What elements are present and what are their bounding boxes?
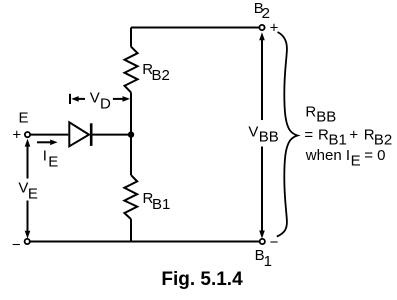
svg-text:B1: B1: [152, 196, 170, 213]
svg-text:E: E: [28, 186, 38, 203]
svg-text:1: 1: [264, 253, 272, 270]
svg-text:when I: when I: [305, 147, 350, 164]
svg-text:V: V: [248, 124, 258, 141]
svg-text:Fig. 5.1.4: Fig. 5.1.4: [161, 269, 243, 290]
svg-text:= 0: = 0: [364, 147, 385, 164]
svg-text:B2: B2: [152, 67, 170, 84]
svg-text:+: +: [349, 126, 358, 143]
svg-text:R: R: [305, 103, 316, 120]
svg-text:E: E: [351, 152, 361, 169]
svg-text:−: −: [12, 236, 21, 253]
svg-text:BB: BB: [259, 129, 279, 146]
svg-text:=: =: [304, 126, 313, 143]
svg-text:BB: BB: [316, 108, 336, 125]
svg-text:E: E: [48, 153, 58, 170]
svg-text:E: E: [19, 110, 29, 127]
svg-text:−: −: [270, 234, 279, 251]
svg-text:D: D: [100, 95, 111, 112]
svg-text:R: R: [318, 126, 329, 143]
svg-text:I: I: [43, 147, 47, 164]
svg-text:+: +: [12, 127, 21, 144]
svg-text:V: V: [90, 89, 100, 106]
svg-text:+: +: [270, 20, 279, 37]
